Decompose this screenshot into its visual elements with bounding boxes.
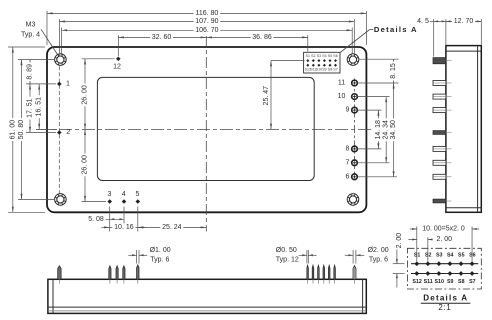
svg-text:10: 10 — [338, 93, 346, 100]
dimension 5.08 pin3-pin4 — [96, 218, 124, 220]
svg-text:2. 00: 2. 00 — [437, 236, 453, 243]
svg-text:24. 34: 24. 34 — [383, 120, 390, 140]
dimension 25.47 S-row to centerline — [271, 60, 305, 62]
svg-text:107. 90: 107. 90 — [195, 18, 218, 25]
front view pin 3 — [109, 266, 111, 280]
svg-text:2. 00: 2. 00 — [396, 233, 403, 249]
top view: inner cover outline — [97, 77, 314, 180]
front view body outline — [48, 279, 366, 313]
leader from M3 label to top-left hole — [41, 29, 58, 55]
leader line to details area — [370, 29, 374, 31]
svg-text:25. 47: 25. 47 — [263, 86, 270, 106]
svg-text:S3: S3 — [317, 54, 321, 58]
pin 9 marker — [352, 107, 358, 113]
svg-text:116. 80: 116. 80 — [195, 10, 218, 17]
svg-text:2:1: 2:1 — [438, 303, 451, 312]
extension lines pins 3 4 5 downward — [109, 207, 111, 232]
horizontal centerline of body — [36, 128, 373, 130]
svg-text:S8: S8 — [328, 68, 332, 72]
svg-text:Typ. 4: Typ. 4 — [21, 31, 40, 38]
side view pin row (pin 7) — [433, 160, 446, 165]
svg-text:Typ. 12: Typ. 12 — [276, 257, 299, 264]
svg-text:7: 7 — [346, 159, 350, 166]
svg-text:S12: S12 — [412, 279, 421, 285]
svg-text:9: 9 — [346, 107, 350, 114]
svg-text:S9: S9 — [322, 68, 326, 72]
svg-text:25. 24: 25. 24 — [162, 224, 182, 231]
pin 8 marker — [352, 146, 358, 152]
vertical centerline of body — [205, 36, 207, 232]
svg-text:6: 6 — [346, 173, 350, 180]
svg-text:17. 51: 17. 51 — [27, 98, 34, 118]
dimension 2.00 row pitch (vertical) — [396, 250, 398, 264]
pin 3 marker — [107, 199, 112, 204]
side view dimension extension lines — [433, 19, 435, 57]
svg-text:S7: S7 — [333, 68, 337, 72]
front view pin 1/2 — [58, 266, 61, 280]
svg-text:26. 00: 26. 00 — [82, 85, 89, 105]
pin 4 marker — [122, 199, 127, 204]
details A row lines — [411, 263, 478, 265]
side view inner lines — [446, 50, 481, 52]
pin 11 marker — [352, 80, 358, 86]
dimension 26.00 upper — [84, 59, 86, 130]
front view inner lines — [52, 279, 54, 313]
svg-text:3: 3 — [107, 191, 111, 198]
svg-text:4: 4 — [122, 191, 126, 198]
side view pin row (pin 10) — [433, 94, 446, 99]
svg-text:10. 16: 10. 16 — [114, 224, 134, 231]
pin 12 marker — [116, 57, 121, 62]
dimension 10.00=5x2.0 — [410, 228, 417, 230]
svg-text:34. 50: 34. 50 — [390, 120, 397, 140]
dimension 116.80 overall width — [47, 12, 366, 14]
mounting hole top-right M3 — [347, 54, 359, 66]
right pin column centerline — [354, 79, 356, 182]
front view pin 12 — [116, 266, 118, 280]
svg-text:S4: S4 — [322, 54, 326, 58]
dimension 16.51 pin1 to centerline — [38, 84, 40, 129]
side view body outline — [446, 46, 481, 213]
pin 2 marker — [57, 130, 62, 135]
svg-text:Typ. 6: Typ. 6 — [369, 257, 388, 264]
details A boundary box — [407, 248, 481, 289]
dimension 107.90 pin span — [59, 21, 354, 23]
svg-text:11: 11 — [338, 80, 345, 87]
svg-text:2: 2 — [66, 129, 70, 136]
dimension 32.60 pin12 to center — [118, 36, 206, 38]
front view power pin (6-11 column) — [353, 266, 356, 280]
details A column extension lines — [416, 227, 418, 262]
pin 7 marker — [352, 160, 358, 166]
side view pin row (pin 11/1) — [433, 81, 446, 86]
diameter callout 0.50 — [306, 250, 308, 264]
svg-text:106. 70: 106. 70 — [195, 27, 218, 34]
top view: module body outline — [47, 47, 366, 212]
pin 6 marker — [352, 174, 358, 180]
dimension 24.34 pin10 to pin7 — [385, 97, 387, 163]
front view S pins — [307, 265, 309, 279]
signal pin grid dots S1-S12 — [306, 59, 309, 62]
signal pin grid box (Details A source) — [304, 52, 340, 73]
dimension 8.89 hole to pin1 — [29, 60, 31, 84]
svg-text:8. 15: 8. 15 — [390, 63, 397, 79]
front view pin 4 — [123, 266, 125, 280]
side view pin row (pin 8) — [433, 146, 446, 151]
dimension 12.70 body thickness — [446, 20, 481, 22]
dimension 17.51 pin1 to pin2 — [29, 84, 31, 133]
dimension 2.00 column pitch — [408, 239, 417, 241]
dimension 10.16 pin3-pin5 — [102, 226, 110, 228]
front view pin 5 — [137, 265, 139, 279]
extension line pin12 leftward — [82, 58, 115, 60]
svg-text:12. 70: 12. 70 — [454, 18, 474, 25]
svg-text:61. 00: 61. 00 — [9, 120, 16, 140]
svg-text:S5: S5 — [328, 54, 332, 58]
svg-text:4. 5: 4. 5 — [417, 18, 429, 25]
mounting hole bottom-right M3 — [347, 194, 359, 206]
svg-text:Typ. 6: Typ. 6 — [150, 257, 169, 264]
svg-text:Ø1. 00: Ø1. 00 — [150, 247, 171, 254]
svg-text:M3: M3 — [26, 22, 36, 29]
svg-text:S10: S10 — [316, 68, 322, 72]
details A pins S12-S7 bottom row — [414, 271, 419, 276]
side view pin row (pin 6) — [433, 174, 446, 179]
pin 5 marker — [136, 199, 141, 204]
mounting hole bottom-left M3 — [55, 194, 67, 206]
extension lines for left dimensions — [8, 46, 45, 48]
svg-text:S8: S8 — [458, 279, 465, 285]
mounting hole top-left M3 — [55, 54, 67, 66]
diameter callout 2.00 — [352, 250, 354, 264]
svg-text:12: 12 — [113, 63, 121, 70]
dimension 8.15 hole to pin11 — [393, 59, 395, 83]
svg-text:S11: S11 — [424, 279, 433, 285]
side view pin row (pin 9) — [433, 108, 446, 113]
dimension 25.24 pin5-centerline — [138, 226, 207, 228]
extension lines for width dimensions — [46, 11, 48, 45]
svg-text:Details A: Details A — [374, 25, 418, 34]
svg-text:36. 86: 36. 86 — [252, 34, 272, 41]
svg-text:Ø0. 50: Ø0. 50 — [276, 247, 297, 254]
left pin column centerline — [58, 60, 60, 199]
svg-text:32. 60: 32. 60 — [152, 34, 172, 41]
svg-text:16. 51: 16. 51 — [36, 97, 43, 117]
svg-text:26. 00: 26. 00 — [82, 155, 89, 175]
svg-text:S2: S2 — [311, 54, 315, 58]
extension lines for right dimensions — [359, 58, 399, 60]
svg-text:10. 00=5x2. 0: 10. 00=5x2. 0 — [422, 226, 465, 233]
dimension 106.70 hole span — [62, 29, 353, 31]
svg-text:5. 08: 5. 08 — [88, 216, 104, 223]
svg-text:1: 1 — [66, 80, 70, 87]
svg-text:S1: S1 — [306, 54, 310, 58]
side view pin row (pin 2) — [433, 131, 446, 135]
svg-text:50. 80: 50. 80 — [18, 120, 25, 140]
side view pin row (pins 3 4 5) — [433, 199, 446, 203]
svg-text:S3: S3 — [436, 252, 443, 258]
svg-text:S4: S4 — [447, 252, 454, 258]
pin 1 marker — [57, 82, 62, 87]
dimension 14.18 pin9 to pin8 — [377, 110, 379, 149]
svg-text:S9: S9 — [447, 279, 454, 285]
svg-text:Details A: Details A — [423, 294, 468, 303]
svg-text:8. 89: 8. 89 — [27, 64, 34, 80]
pin 10 marker — [352, 94, 358, 100]
svg-text:S7: S7 — [469, 279, 476, 285]
dimension 50.80 hole span vertical — [21, 60, 23, 200]
side view S-pin block — [433, 58, 446, 64]
diameter callout 1.00 — [136, 250, 138, 264]
dimension 34.50 pin11 to pin6 — [393, 83, 395, 177]
svg-text:8: 8 — [346, 145, 350, 152]
dimension 26.00 lower — [84, 129, 86, 201]
svg-text:14. 18: 14. 18 — [375, 120, 382, 140]
dimension 36.86 center to S1 — [206, 36, 307, 38]
svg-text:Ø2. 00: Ø2. 00 — [368, 247, 389, 254]
svg-text:S6: S6 — [333, 54, 337, 58]
dimension 61.00 overall height — [12, 47, 14, 212]
extension line pin3 leftward — [82, 201, 107, 203]
svg-text:5: 5 — [136, 191, 140, 198]
details A pins S1-S6 top row — [414, 261, 419, 266]
svg-text:S5: S5 — [458, 252, 465, 258]
svg-text:S10: S10 — [434, 279, 443, 285]
